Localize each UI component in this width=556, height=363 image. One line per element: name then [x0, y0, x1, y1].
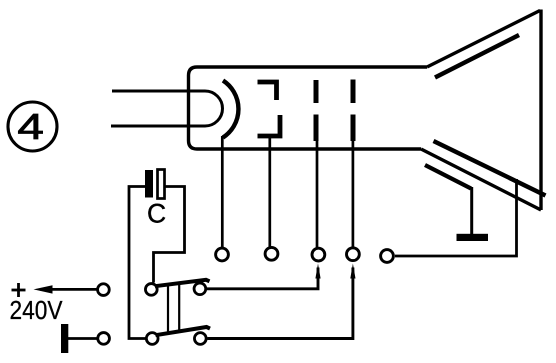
capacitor C left plate: [145, 170, 153, 198]
switch S1 pole b left contact: [146, 333, 158, 345]
final anode wire (coating tap to terminal): [395, 179, 517, 256]
anode A2 plate pair 1: [314, 80, 319, 141]
capacitor left wire: [129, 187, 146, 339]
svg-text:240V: 240V: [10, 297, 63, 325]
switch S1 pole a arm: [155, 280, 210, 286]
upper internal coating: [435, 35, 519, 78]
positive terminal circle: [98, 284, 110, 296]
positive supply wire with left arrowhead: [34, 285, 98, 293]
capacitor right wire (step to switch): [154, 187, 185, 283]
negative terminal bar: [61, 324, 68, 353]
anode A2 lead wire: [316, 140, 319, 248]
grid G1 lead wire: [221, 136, 224, 248]
capacitor C right plate: [158, 170, 165, 199]
switch S1 pole b right contact: [194, 333, 206, 345]
cathode K (rounded cap): [205, 91, 223, 126]
coating lead strip: [425, 165, 471, 189]
terminal circle 4 (A3): [347, 248, 360, 261]
terminal circle 2 (A1): [265, 247, 278, 260]
svg-text:4: 4: [17, 106, 44, 147]
anode A3 lead wire: [352, 140, 355, 247]
lower internal coating: [434, 141, 546, 196]
grid G1 (curved electrode): [223, 81, 238, 138]
accelerator supply wire with arrow: [208, 264, 356, 339]
negative supply wire: [68, 337, 98, 340]
anode A1 lead wire: [268, 137, 271, 247]
switch mechanical link: [168, 283, 179, 334]
terminal circle 3 (A2): [312, 248, 325, 261]
plus sign: [12, 283, 26, 297]
heater leads: [111, 91, 205, 126]
switch S1 pole a left contact: [145, 284, 157, 296]
EHT terminal bar: [457, 234, 489, 241]
terminal circle 5 (final anode): [381, 250, 394, 263]
switch S1 pole a right contact: [194, 283, 206, 295]
CRT envelope (neck, flare, screen): [189, 10, 542, 211]
svg-text:C: C: [147, 198, 166, 228]
terminal circle 1 (grid): [216, 248, 229, 261]
anode A3 plate pair 2: [351, 80, 356, 142]
negative terminal circle: [98, 333, 110, 345]
figure number circle 4: [8, 102, 57, 151]
switch S1 pole b arm: [156, 327, 211, 335]
focus supply wire with arrow: [207, 264, 321, 289]
anode cylinder A1 (bracket electrode): [258, 82, 281, 136]
